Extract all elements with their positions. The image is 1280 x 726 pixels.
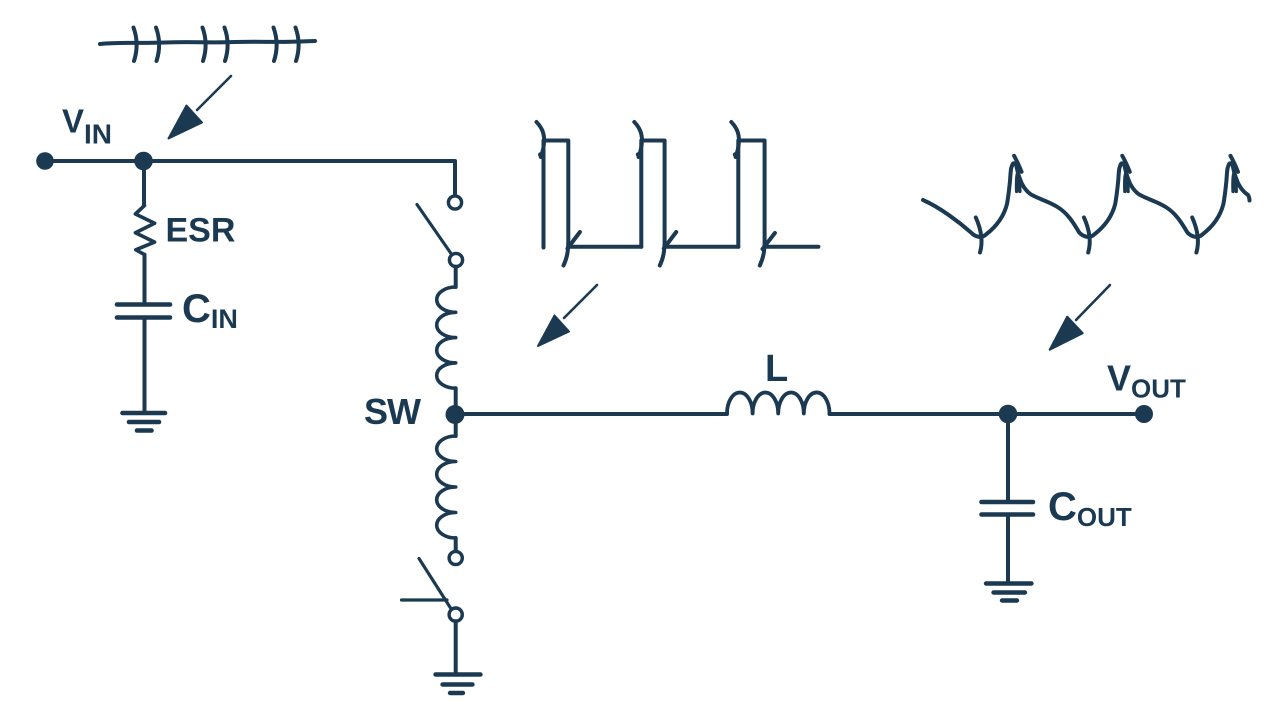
wire: ESR to CIN <box>143 255 147 302</box>
ground G2 (below bottom switch) <box>436 675 481 694</box>
wire: switch to coil1 <box>454 267 458 287</box>
waveform W2: SW node square wave sketch <box>537 122 819 266</box>
waveform W3: output ripple sketch <box>923 156 1250 253</box>
ripple valley tick 2 <box>1084 217 1090 252</box>
wire: SW node down to coil2 <box>454 415 458 437</box>
switch SW-top blade <box>417 205 451 254</box>
ripple peak tick 3 <box>1233 173 1236 192</box>
node: VOUT junction dot <box>999 405 1018 424</box>
pulse 2 <box>641 141 664 266</box>
inductor L <box>727 392 830 413</box>
resistor ESR zigzag <box>135 206 154 255</box>
inductor coil2 (lower half of switch leg) <box>437 436 456 538</box>
ground G1 (below CIN) <box>123 413 166 431</box>
pulse 1 <box>544 141 569 266</box>
ground G3 (below COUT) <box>986 584 1032 601</box>
svg-text:L: L <box>765 348 788 390</box>
pulse 3 <box>738 141 764 266</box>
wire: VOUT node down to COUT <box>1006 414 1010 500</box>
terminal dot: VOUT <box>1135 405 1153 423</box>
node: VIN junction dot <box>134 152 153 171</box>
ripple valley tick 1 <box>976 217 982 252</box>
ripple apex spike 3 <box>1231 156 1239 172</box>
switch SW-bottom contact circle lower <box>449 608 462 621</box>
switch SW-bottom contact circle upper <box>449 551 462 564</box>
waveform W1: input noise spikes sketch <box>100 28 315 62</box>
arrow A3: ripple points to VOUT <box>1050 285 1110 350</box>
inductor coil1 (upper half of switch leg) <box>437 287 456 388</box>
switch SW-bottom throw contact line <box>402 598 448 601</box>
capacitor CIN plates <box>117 305 170 318</box>
switch SW-bottom blade <box>419 559 452 610</box>
wire: input rail VIN to switch corner <box>45 161 455 196</box>
switch SW-top contact circle lower <box>449 253 462 266</box>
ripple peak tick 1 <box>1016 173 1019 192</box>
wire: inductor L to VOUT terminal <box>830 412 1145 416</box>
ripple apex spike 1 <box>1014 156 1022 172</box>
svg-text:SW: SW <box>364 391 421 432</box>
wire: SW rail to inductor L <box>455 412 727 416</box>
wire: bottom switch to ground <box>454 621 458 673</box>
wire: CIN to ground <box>143 318 147 413</box>
ripple peak tick 2 <box>1125 173 1128 192</box>
wire: COUT to ground <box>1006 515 1010 583</box>
ripple apex spike 2 <box>1122 156 1130 172</box>
node SW junction dot <box>446 405 465 424</box>
wire: VIN node down to ESR <box>142 161 146 205</box>
arrow A2: square wave points to SW node <box>538 285 597 346</box>
svg-text:ESR: ESR <box>166 212 236 250</box>
arrow A1: noise points to VIN node <box>169 76 232 139</box>
switch SW-top contact circle upper <box>448 196 461 209</box>
wire: coil1 to SW node <box>454 388 458 414</box>
wire: coil2 to bottom switch <box>454 538 458 551</box>
terminal dot: VIN input <box>36 152 54 170</box>
capacitor COUT plates <box>982 502 1034 515</box>
ripple valley tick 3 <box>1192 217 1198 252</box>
